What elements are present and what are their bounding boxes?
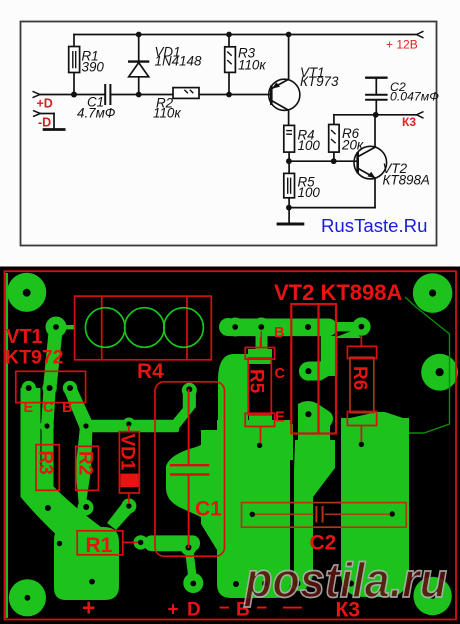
label R4 value xyxy=(298,128,321,154)
R5 bottom pad merge pour xyxy=(249,413,272,438)
wire R1 bar to C1 pad xyxy=(144,535,200,551)
svg-text:D: D xyxy=(187,600,201,621)
wire R6 leads xyxy=(333,115,335,125)
svg-text:КТ898А: КТ898А xyxy=(383,173,430,188)
footprint R2 outline xyxy=(76,446,99,490)
footprint R4 outline xyxy=(75,296,212,360)
svg-text:B: B xyxy=(62,400,72,416)
R5 lead marks xyxy=(260,331,262,347)
pad VT1 pin C xyxy=(42,381,56,395)
wire VD1 vertical xyxy=(138,35,140,95)
wire input line xyxy=(40,94,105,96)
diode VD1 cathode band (filled) xyxy=(120,474,138,488)
schematic frame xyxy=(21,22,437,246)
label R5 value xyxy=(298,175,321,201)
R5 strap to bar xyxy=(256,336,268,352)
pad VD1 top xyxy=(122,418,135,431)
wire VD1 pad diagonal to blob xyxy=(107,501,133,530)
svg-text:110к: 110к xyxy=(238,58,266,73)
pad VD1 bottom xyxy=(121,499,136,514)
C1 plates xyxy=(170,464,209,466)
big right strip K3 xyxy=(341,418,409,597)
svg-text:C1: C1 xyxy=(195,498,222,521)
footprint R3 outline xyxy=(36,445,59,491)
wire pad down to VT2 C pad xyxy=(321,330,361,360)
pad right middle xyxy=(421,354,458,391)
R5 top pad xyxy=(248,349,272,364)
svg-text:C2: C2 xyxy=(310,532,337,555)
pad bottom-right corner xyxy=(413,577,451,615)
wire VT2 emitter down and left xyxy=(374,178,376,208)
pad +D terminal xyxy=(183,573,203,593)
wire VT1 pad to R4 xyxy=(56,325,75,329)
wire R5 leads xyxy=(288,161,290,173)
footprint R1 outline xyxy=(77,531,123,555)
svg-text:4.7мФ: 4.7мФ xyxy=(77,106,116,121)
wire VT1 collector to R4 xyxy=(288,110,290,125)
svg-text:100: 100 xyxy=(298,138,321,153)
silkscreen outlines xyxy=(16,296,406,556)
wire E pin down left side xyxy=(21,388,41,483)
svg-text:+ 12В: + 12В xyxy=(386,38,418,52)
pad C1 top with elbow trace xyxy=(182,383,197,398)
pad VT1 collector top xyxy=(46,317,67,338)
footprint R5 outline xyxy=(245,348,274,360)
svg-text:+D: +D xyxy=(37,97,53,111)
pad R3 bottom xyxy=(40,500,56,516)
svg-text:-D: -D xyxy=(38,116,51,130)
svg-text:110к: 110к xyxy=(153,106,181,121)
wire node line to VT2 base xyxy=(289,160,357,162)
wire R2 vertical through footprint xyxy=(76,426,93,507)
R4 winding rings (green) xyxy=(85,308,125,348)
plus terminal blob xyxy=(54,527,119,600)
label VD1 value xyxy=(155,45,202,69)
svg-text:E: E xyxy=(24,400,34,416)
pad VT1 pin B xyxy=(63,381,77,395)
capacitor C2 outline xyxy=(242,503,407,528)
pad C2 left xyxy=(246,508,259,521)
footprint VT1 outline xyxy=(16,371,86,402)
node dots xyxy=(71,32,379,211)
transistor VT1 xyxy=(269,79,300,110)
C1 lead lines xyxy=(188,389,190,464)
R6 bottom pad strip top xyxy=(341,412,409,420)
svg-text:KT972: KT972 xyxy=(5,347,64,369)
pad via below C xyxy=(40,419,54,433)
wire top rail +12V xyxy=(74,34,417,36)
wire VT2 collector up xyxy=(374,115,376,147)
wire via to VD1 top xyxy=(86,420,179,432)
svg-text:КТ973: КТ973 xyxy=(300,74,339,89)
svg-text:0.047мФ: 0.047мФ xyxy=(390,90,439,104)
wire ground drop xyxy=(288,208,290,223)
label C2 value xyxy=(390,80,439,104)
svg-text:–: – xyxy=(219,597,230,618)
resistor R4 xyxy=(284,125,295,152)
pad base feed VT2 xyxy=(352,317,370,335)
wire B pin diagonal to via xyxy=(64,384,92,429)
wire E trail diagonal to trunk xyxy=(21,466,102,540)
left copper edge line xyxy=(6,273,8,618)
pad top-left corner xyxy=(7,273,46,312)
svg-text:R6: R6 xyxy=(349,366,370,390)
label VT2 type xyxy=(383,161,430,188)
pcb background xyxy=(0,267,460,624)
label R2 value xyxy=(153,96,181,121)
pad C1 bottom xyxy=(181,540,197,556)
svg-text:+: + xyxy=(168,600,179,621)
pad VT2 B xyxy=(300,319,317,336)
svg-text:R5: R5 xyxy=(246,369,267,394)
diode VD1 xyxy=(128,62,149,77)
pad via below B xyxy=(79,419,93,433)
resistor R5 xyxy=(284,173,295,197)
pcb labels xyxy=(5,280,402,622)
pcb red frame xyxy=(5,271,457,619)
pour outline right (thin) xyxy=(405,297,450,433)
pour bulge into C1 xyxy=(166,420,225,526)
pour main body xyxy=(217,420,290,598)
diode VD1 outline xyxy=(119,432,139,493)
pad R4 right xyxy=(219,318,237,336)
wire R4 to node xyxy=(288,152,290,161)
svg-text:RusTaste.Ru: RusTaste.Ru xyxy=(321,215,427,236)
connector arrow +12V xyxy=(417,31,424,38)
svg-text:R3: R3 xyxy=(35,451,56,475)
ground (R5 bottom) xyxy=(277,223,305,226)
svg-text:390: 390 xyxy=(82,60,105,75)
svg-text:R1: R1 xyxy=(86,534,113,557)
pcb copper: green traces and pours xyxy=(7,273,458,617)
svg-text:R2: R2 xyxy=(75,451,96,475)
footprint R6 outline xyxy=(347,346,376,358)
wire VT1 pad down to C pin xyxy=(43,327,63,388)
wire C1 pad to +D pad xyxy=(185,547,198,583)
label R6 value xyxy=(341,126,364,153)
svg-text:VT2 KT898A: VT2 KT898A xyxy=(274,280,402,305)
svg-text:R4: R4 xyxy=(137,360,164,383)
svg-text:К3: К3 xyxy=(402,115,416,129)
resistor R1 xyxy=(69,47,80,73)
wide top bar pads row xyxy=(222,319,337,337)
wire K3 line xyxy=(334,114,417,116)
resistor R3 xyxy=(225,47,236,73)
wire R3 leads xyxy=(228,35,230,47)
svg-text:100: 100 xyxy=(298,185,321,200)
footprint VT2 outline xyxy=(291,304,336,434)
label VT1 type xyxy=(300,65,339,89)
connector arrow K3 xyxy=(417,112,424,119)
svg-text:VD1: VD1 xyxy=(117,434,138,471)
strap bar to pad xyxy=(330,322,361,331)
pcb drill holes (black) xyxy=(23,289,444,601)
wire C2 leads xyxy=(375,79,377,94)
svg-text:C: C xyxy=(43,400,54,416)
label C1 value xyxy=(77,95,116,121)
label R3 value xyxy=(238,46,266,73)
resistor R2 xyxy=(173,88,199,99)
pad VT2 E blob xyxy=(298,401,333,454)
label R1 value xyxy=(82,49,105,75)
ground (input -D) xyxy=(43,128,66,131)
svg-text:postila.ru: postila.ru xyxy=(243,554,447,608)
pad bottom-left corner xyxy=(9,579,46,616)
connector arrow -D xyxy=(33,110,40,116)
svg-text:1N4148: 1N4148 xyxy=(155,54,202,69)
wire VT1 emitter to rail xyxy=(288,35,290,80)
watermark postila.ru xyxy=(243,554,447,608)
wire R1 leads xyxy=(73,35,75,47)
pad R1 right xyxy=(134,535,148,549)
pad VT2 C with tail xyxy=(299,362,318,381)
capacitor C1 outline xyxy=(155,382,225,556)
pour arm left of R5 xyxy=(218,354,248,434)
wire E column down to minus pad xyxy=(294,440,335,583)
capacitor C1 xyxy=(105,84,110,105)
svg-text:VT1: VT1 xyxy=(6,326,43,348)
wire -D stub xyxy=(40,113,54,115)
svg-text:B: B xyxy=(274,325,284,341)
svg-text:20к: 20к xyxy=(341,138,364,153)
pad R2 bottom xyxy=(78,500,94,516)
transistor VT2 xyxy=(354,146,387,179)
resistor R6 xyxy=(329,125,339,153)
pad top-right corner xyxy=(413,273,453,313)
pour bridge under R5 xyxy=(221,424,293,460)
pad VT1 pin E xyxy=(22,381,36,395)
svg-text:C: C xyxy=(275,366,286,382)
svg-text:+: + xyxy=(82,595,95,621)
capacitor C2 xyxy=(365,78,388,100)
connector arrow +D xyxy=(33,91,40,97)
schematic background xyxy=(0,0,460,267)
wire C pin down to via xyxy=(41,388,56,426)
svg-text:E: E xyxy=(275,410,285,426)
wire R3 vertical through footprint xyxy=(42,426,54,500)
